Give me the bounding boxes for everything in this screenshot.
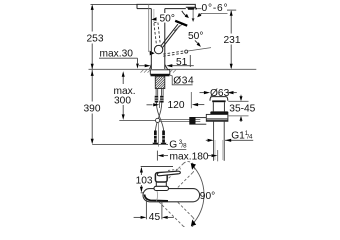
svg-text:0°-6°: 0°-6° bbox=[202, 3, 229, 14]
svg-text:120: 120 bbox=[168, 100, 185, 111]
svg-text:231: 231 bbox=[224, 35, 241, 46]
svg-text:Ø63: Ø63 bbox=[210, 88, 230, 99]
svg-text:51: 51 bbox=[176, 57, 188, 68]
svg-text:/4: /4 bbox=[247, 133, 253, 140]
svg-text:45: 45 bbox=[149, 212, 161, 223]
svg-text:35-45: 35-45 bbox=[229, 104, 255, 115]
svg-text:253: 253 bbox=[87, 34, 104, 45]
svg-text:/8: /8 bbox=[181, 142, 187, 149]
svg-text:max.180: max.180 bbox=[170, 151, 209, 162]
svg-text:103: 103 bbox=[136, 176, 153, 187]
svg-text:300: 300 bbox=[114, 96, 131, 107]
svg-text:G: G bbox=[169, 140, 177, 151]
svg-text:Ø34: Ø34 bbox=[173, 75, 194, 86]
svg-text:90°: 90° bbox=[200, 191, 215, 202]
svg-text:390: 390 bbox=[84, 104, 101, 115]
svg-text:50°: 50° bbox=[160, 14, 175, 25]
svg-text:50°: 50° bbox=[188, 31, 203, 42]
